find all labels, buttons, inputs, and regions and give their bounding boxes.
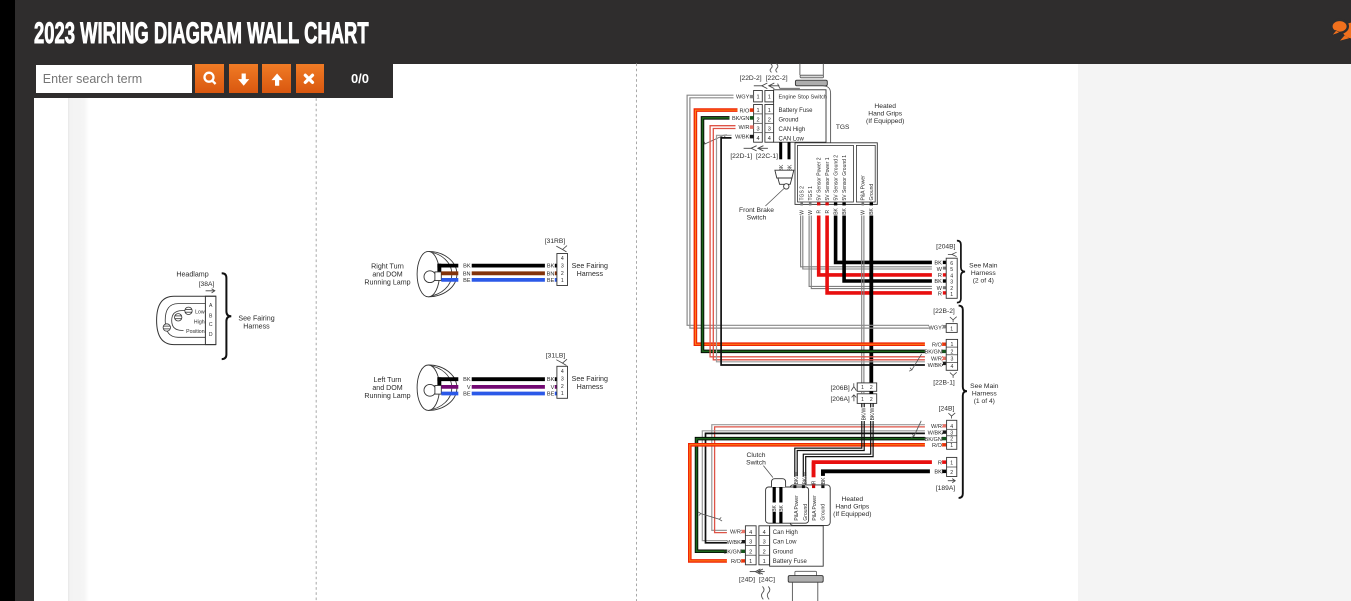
TGS wire letter labels	[799, 207, 875, 214]
wire BK stub (right lamp)	[437, 264, 441, 273]
wire BK left lamp	[437, 377, 557, 381]
wire label WGY at 22B-2	[929, 324, 942, 330]
right lamp body	[428, 251, 457, 296]
svg-text:C: C	[209, 322, 213, 328]
wire BK right lamp	[437, 264, 557, 268]
svg-text:Can Low: Can Low	[773, 540, 797, 546]
search toolbar	[15, 64, 393, 99]
svg-text:(2 of 4): (2 of 4)	[973, 278, 994, 285]
grip flange small	[800, 75, 823, 78]
svg-text:Headlamp: Headlamp	[176, 270, 208, 278]
svg-text:W/BK: W/BK	[735, 135, 750, 141]
wire BE left lamp	[441, 392, 557, 396]
svg-text:BK/W: BK/W	[794, 471, 800, 484]
wire BK brake 2	[788, 142, 791, 170]
svg-text:TGS: TGS	[836, 124, 850, 131]
R / BK labels above grips box	[811, 477, 816, 484]
left lamp socket	[435, 386, 441, 395]
wire W/R bus (bottom)	[712, 425, 943, 531]
svg-text:1: 1	[561, 391, 564, 397]
wire BK P&A ground down to 206B	[869, 216, 873, 383]
svg-text:[31RB]: [31RB]	[545, 238, 566, 245]
wire R/O bus (bottom)	[690, 445, 943, 561]
wire BK sensor ground1 to 204B pin3	[844, 216, 943, 282]
grip bottom body	[792, 582, 817, 601]
svg-text:Switch: Switch	[747, 215, 767, 222]
svg-text:BE: BE	[547, 392, 555, 398]
svg-text:R: R	[816, 210, 822, 214]
svg-text:Ground: Ground	[869, 184, 875, 201]
svg-text:[22B-2]: [22B-2]	[933, 308, 955, 315]
wire labels right (left lamp)	[545, 375, 555, 397]
svg-text:BK: BK	[934, 470, 942, 476]
svg-text:BK: BK	[869, 207, 875, 214]
wire labels right (right lamp)	[545, 262, 555, 284]
wire W/BK bus (bottom)	[702, 431, 943, 541]
svg-text:See Fairing: See Fairing	[572, 262, 608, 270]
wire labels left (left lamp)	[458, 375, 471, 397]
svg-text:W: W	[937, 267, 943, 273]
svg-text:BN: BN	[463, 271, 471, 277]
svg-text:3: 3	[950, 357, 953, 363]
svg-text:1: 1	[950, 461, 953, 467]
wire BK vertical to grips	[821, 471, 825, 488]
svg-text:Harness: Harness	[972, 390, 998, 397]
svg-text:BE: BE	[463, 392, 471, 398]
headlamp housing outline	[157, 296, 216, 344]
svg-text:2: 2	[756, 117, 759, 123]
svg-text:R: R	[938, 460, 942, 466]
wire BK to 189A	[823, 471, 943, 488]
svg-text:W/BK: W/BK	[727, 540, 742, 546]
svg-text:R: R	[825, 210, 831, 214]
svg-text:3: 3	[950, 280, 953, 286]
svg-text:3: 3	[756, 127, 759, 133]
svg-text:BK/W: BK/W	[803, 471, 809, 484]
svg-text:2: 2	[950, 349, 953, 355]
svg-text:R/O: R/O	[932, 343, 943, 349]
svg-text:Position: Position	[186, 329, 205, 335]
svg-text:Ground: Ground	[803, 504, 809, 521]
wire BK sensor ground2 to 204B pin6	[836, 216, 943, 263]
svg-text:W/R: W/R	[730, 530, 741, 536]
wire R sensor power1 to 204B pin1	[827, 216, 943, 293]
svg-text:[204B]: [204B]	[936, 243, 955, 250]
headlamp connector 38A pins	[205, 296, 216, 344]
svg-text:BE: BE	[547, 278, 555, 284]
svg-text:R/O: R/O	[731, 559, 742, 565]
svg-text:R/O: R/O	[932, 443, 943, 449]
wire label BK/GN	[730, 115, 750, 121]
svg-text:BK: BK	[779, 504, 785, 511]
wire labels at 22B-1	[925, 341, 942, 367]
svg-text:Harness: Harness	[577, 383, 604, 391]
fold highlight band	[68, 63, 89, 601]
svg-text:[22D-1]: [22D-1]	[730, 153, 752, 160]
fold dashed line 2	[636, 64, 638, 601]
wire from grip right to TGS	[824, 86, 831, 143]
svg-text:and DOM: and DOM	[372, 271, 402, 279]
svg-text:1: 1	[768, 108, 771, 114]
P&A pin marks clutch side	[793, 485, 796, 488]
svg-text:R: R	[938, 291, 942, 297]
arrow 189A	[948, 479, 955, 483]
svg-text:[206A]: [206A]	[830, 396, 849, 403]
clutch switch box	[766, 487, 809, 523]
svg-text:(If Equipped): (If Equipped)	[866, 118, 904, 125]
svg-text:1: 1	[950, 292, 953, 298]
svg-text:1: 1	[950, 342, 953, 348]
wire break squiggle top	[770, 64, 772, 73]
svg-text:BK/W: BK/W	[861, 407, 867, 420]
svg-text:R: R	[812, 480, 818, 484]
svg-text:4: 4	[768, 136, 771, 142]
wire W TGS2 to 204B pin5	[801, 216, 943, 267]
svg-text:3: 3	[950, 430, 953, 436]
pin stubs 189A	[943, 460, 946, 464]
throttle grip cylinder top	[800, 64, 823, 76]
svg-text:1: 1	[763, 559, 766, 565]
svg-text:Engine Stop Switch: Engine Stop Switch	[779, 95, 828, 101]
svg-text:[24B]: [24B]	[939, 405, 955, 412]
connector 22C-1 pin box	[765, 105, 774, 143]
svg-text:(1 of 4): (1 of 4)	[974, 398, 995, 405]
svg-text:BN: BN	[547, 271, 555, 277]
svg-text:2: 2	[950, 437, 953, 443]
svg-text:P&A Power: P&A Power	[794, 495, 800, 521]
wire W/R bus (top)	[710, 126, 943, 357]
svg-text:Running Lamp: Running Lamp	[364, 392, 410, 400]
svg-text:Switch: Switch	[746, 459, 766, 466]
TGS sensor box	[798, 145, 854, 202]
wire BN right lamp	[441, 271, 557, 275]
wire W/BK bus (top)	[717, 135, 943, 361]
svg-text:BK: BK	[463, 264, 471, 270]
svg-text:Ground: Ground	[773, 549, 793, 555]
svg-text:BK: BK	[934, 279, 942, 285]
svg-text:5V Sensor Ground 1: 5V Sensor Ground 1	[842, 155, 848, 201]
left lamp bulb	[424, 384, 436, 396]
TGS pin stubs	[800, 202, 803, 205]
svg-text:5: 5	[950, 267, 953, 273]
svg-text:3: 3	[768, 127, 771, 133]
svg-text:CAN High: CAN High	[779, 127, 806, 133]
svg-text:W: W	[799, 210, 805, 215]
wire BK/W pair 1 (206A to clutch P&A power)	[795, 403, 862, 487]
bulb position	[163, 324, 170, 331]
svg-text:[206B]: [206B]	[830, 385, 849, 392]
svg-text:2: 2	[561, 271, 564, 277]
wire BK clutch 2	[779, 487, 782, 523]
svg-text:Harness: Harness	[243, 322, 270, 330]
big brace see main harness 1of4	[959, 306, 967, 498]
svg-text:WGY: WGY	[929, 325, 943, 331]
svg-text:Heated: Heated	[842, 496, 864, 503]
front brake switch leader	[765, 189, 784, 207]
svg-text:BK: BK	[547, 377, 555, 383]
svg-text:Left Turn: Left Turn	[374, 376, 402, 384]
svg-text:TGS 1: TGS 1	[808, 186, 814, 201]
heated grips connector box	[790, 485, 830, 526]
connector [206B]	[857, 383, 877, 391]
connector [31LB]	[557, 366, 568, 398]
svg-text:2: 2	[870, 385, 873, 391]
svg-text:[22D-2]: [22D-2]	[740, 75, 762, 82]
page white area	[34, 63, 1078, 601]
svg-text:1: 1	[756, 108, 759, 114]
connector 24C pin box	[759, 526, 770, 565]
svg-text:A: A	[209, 303, 213, 309]
wire labels at 204B	[932, 259, 943, 296]
connector [204B]	[946, 258, 957, 298]
svg-text:1: 1	[756, 94, 759, 100]
wire labels at 24B	[925, 422, 942, 447]
svg-text:1: 1	[950, 326, 953, 332]
grip bottom gray cap	[788, 576, 823, 583]
svg-text:5V Sensor Power 2: 5V Sensor Power 2	[816, 157, 822, 200]
TGS P&A box	[856, 145, 875, 202]
svg-text:BK: BK	[772, 504, 778, 511]
svg-text:4: 4	[756, 136, 759, 142]
svg-text:and DOM: and DOM	[372, 384, 402, 392]
svg-text:[24D]: [24D]	[739, 577, 755, 584]
svg-text:2: 2	[749, 549, 752, 555]
svg-text:D: D	[209, 332, 213, 338]
wire BK clutch 1	[773, 487, 776, 523]
svg-text:4: 4	[950, 364, 953, 370]
pin stubs top	[750, 95, 754, 98]
svg-text:4: 4	[561, 369, 564, 375]
twist mark top	[702, 135, 727, 144]
wire BK/W pair 2 (206A to clutch ground)	[803, 403, 870, 487]
svg-text:4: 4	[561, 256, 564, 262]
wire labels at 189A	[932, 459, 942, 465]
pin stubs 22B-1	[943, 343, 946, 346]
svg-text:Heated: Heated	[874, 103, 896, 110]
svg-text:(If Equipped): (If Equipped)	[833, 511, 871, 518]
pin stubs 24D	[742, 530, 745, 533]
svg-text:P&A Power: P&A Power	[861, 175, 867, 201]
arrow to 38A	[206, 289, 215, 293]
svg-text:High: High	[194, 319, 205, 325]
svg-text:V: V	[551, 385, 555, 391]
svg-text:Harness: Harness	[577, 270, 604, 278]
wire V left lamp	[441, 385, 557, 389]
connector [22B-2]	[946, 324, 957, 333]
brace 204B	[957, 241, 965, 303]
svg-text:BK: BK	[842, 207, 848, 214]
svg-text:BK: BK	[833, 207, 839, 214]
svg-text:BK/W: BK/W	[870, 407, 876, 420]
grip bottom flange	[795, 571, 817, 576]
svg-text:1: 1	[561, 278, 564, 284]
svg-text:Harness: Harness	[971, 270, 997, 277]
svg-text:6: 6	[950, 261, 953, 267]
svg-text:3: 3	[561, 264, 564, 270]
svg-text:5V Sensor Ground 2: 5V Sensor Ground 2	[833, 155, 839, 201]
clutch switch leader	[763, 466, 773, 478]
svg-text:WGY: WGY	[736, 95, 750, 101]
bulb high	[175, 314, 182, 321]
wire from grip left	[778, 84, 800, 89]
24 function box	[770, 526, 824, 566]
svg-text:4: 4	[950, 424, 953, 430]
wire BK/GN bus (bottom)	[697, 439, 943, 552]
bulb low	[185, 307, 192, 314]
svg-text:[38A]: [38A]	[199, 281, 215, 288]
svg-text:3: 3	[749, 540, 752, 546]
pin stubs 24B	[943, 424, 946, 427]
brace headlamp	[222, 273, 232, 359]
svg-text:3: 3	[763, 540, 766, 546]
svg-text:Ground: Ground	[779, 118, 799, 124]
bulb labels	[193, 309, 206, 314]
svg-text:R: R	[938, 273, 942, 279]
headlamp inner shell	[165, 304, 205, 338]
BK/W labels below 206A	[860, 407, 867, 421]
arrows 22D-1/22C-1	[744, 146, 768, 151]
svg-text:W/R: W/R	[739, 125, 750, 131]
wire R sensor power2 to 204B pin4	[819, 216, 943, 275]
twist mark 24B	[911, 421, 921, 438]
connector [206A]	[857, 394, 877, 404]
wire label R/O	[738, 107, 750, 113]
wire label WGY	[734, 93, 750, 99]
svg-text:4: 4	[749, 530, 752, 536]
wire BK/GN bus (top)	[703, 118, 943, 352]
svg-text:BK: BK	[821, 477, 827, 484]
headlamp inner curve	[172, 311, 206, 331]
right lamp bulb	[424, 271, 436, 283]
search input	[36, 65, 193, 93]
wire W P&A power down to 206B	[861, 216, 863, 383]
svg-text:TGS 2: TGS 2	[799, 186, 805, 201]
svg-text:BK/GN: BK/GN	[732, 116, 749, 122]
svg-text:Battery Fuse: Battery Fuse	[779, 108, 814, 114]
BK labels clutch	[772, 503, 777, 513]
svg-text:Running Lamp: Running Lamp	[364, 279, 410, 287]
svg-text:2: 2	[768, 117, 771, 123]
TGS column labels	[799, 155, 875, 201]
chat icon	[1322, 10, 1351, 46]
connector [22B-1]	[946, 339, 957, 370]
svg-text:4: 4	[763, 530, 766, 536]
wire break squiggle bottom	[762, 586, 765, 599]
svg-text:BK/GN: BK/GN	[723, 550, 740, 556]
svg-text:CAN Low: CAN Low	[779, 136, 805, 142]
front brake switch symbol	[775, 170, 794, 178]
svg-text:W/BK: W/BK	[928, 363, 943, 369]
svg-text:B: B	[209, 313, 213, 319]
right lamp socket	[435, 272, 441, 281]
twist mark bottom bus	[698, 512, 722, 521]
svg-text:P&A Power: P&A Power	[812, 495, 818, 521]
svg-text:W: W	[861, 210, 867, 215]
clutch switch dome	[772, 479, 786, 487]
svg-text:1: 1	[768, 94, 771, 100]
svg-text:3: 3	[561, 377, 564, 383]
svg-text:See Main: See Main	[969, 263, 998, 270]
svg-text:[24C]: [24C]	[759, 577, 775, 584]
svg-text:BK: BK	[463, 377, 471, 383]
wire label W/R	[736, 124, 750, 130]
svg-text:Battery Fuse: Battery Fuse	[773, 559, 808, 565]
connector [189A]	[947, 457, 957, 476]
svg-text:2: 2	[561, 384, 564, 390]
wire R to 189A	[814, 462, 943, 488]
connector 24D pin box	[745, 526, 756, 565]
connector 22D-1 pin box	[754, 105, 763, 143]
svg-text:Right Turn: Right Turn	[371, 263, 404, 271]
svg-text:W/R: W/R	[931, 424, 942, 430]
wire BK stub (left lamp)	[437, 377, 441, 386]
wire W TGS1 to 204B pin2	[809, 216, 943, 287]
svg-text:W: W	[808, 210, 814, 215]
wire R vertical to grips	[812, 462, 816, 488]
wire WGY bus (top)	[687, 95, 943, 325]
svg-text:[189A]: [189A]	[936, 485, 955, 492]
dark gray column	[15, 0, 34, 601]
connector 22D-2 pin box	[754, 91, 763, 102]
svg-text:4: 4	[950, 273, 953, 279]
svg-text:1: 1	[950, 443, 953, 449]
svg-text:See Main: See Main	[970, 383, 999, 390]
svg-text:BK: BK	[934, 261, 942, 267]
search buttons	[195, 64, 224, 94]
svg-text:Hand Grips: Hand Grips	[868, 111, 902, 118]
BK labels brake	[778, 159, 783, 172]
connector 22C-2 pin box	[765, 91, 774, 102]
svg-text:See Fairing: See Fairing	[572, 375, 608, 383]
svg-text:[22C-2]: [22C-2]	[766, 75, 788, 82]
svg-text:[22B-1]: [22B-1]	[933, 380, 955, 387]
title	[34, 17, 369, 51]
svg-text:1: 1	[749, 559, 752, 565]
svg-text:5V Sensor Power 1: 5V Sensor Power 1	[825, 157, 831, 200]
arrows 22D-2/22C-2	[754, 83, 780, 89]
svg-text:2: 2	[870, 397, 873, 403]
svg-text:Front Brake: Front Brake	[739, 207, 774, 214]
svg-text:W/BK: W/BK	[928, 431, 943, 437]
svg-text:W/R: W/R	[931, 357, 942, 363]
svg-text:2: 2	[763, 549, 766, 555]
svg-text:Can High: Can High	[773, 530, 798, 536]
wire R/O bus (top)	[695, 110, 942, 344]
svg-text:BK/GN: BK/GN	[924, 437, 941, 443]
svg-text:BK/GN: BK/GN	[924, 350, 941, 356]
connector [24B]	[947, 420, 957, 449]
BK/W labels above clutch box	[793, 476, 806, 485]
left lamp body	[428, 365, 457, 410]
svg-text:V: V	[467, 385, 471, 391]
0/0 counter	[346, 71, 374, 86]
wire labels at 24D	[727, 528, 741, 566]
svg-text:Clutch: Clutch	[747, 452, 766, 459]
arrows 24D/24C	[750, 569, 765, 574]
wire labels left (right lamp)	[458, 262, 471, 284]
svg-text:2: 2	[950, 470, 953, 476]
connector [31RB]	[557, 254, 568, 286]
wire BK brake 1	[779, 142, 782, 170]
svg-text:Ground: Ground	[820, 504, 826, 521]
engine stop switch box	[774, 90, 826, 142]
svg-text:[22C-1]: [22C-1]	[756, 153, 778, 160]
grip flange big	[795, 80, 827, 86]
pin stubs 204B	[943, 261, 946, 264]
arrow below 22B-1	[950, 372, 957, 378]
header bar	[15, 0, 1351, 64]
TGS outer box	[795, 143, 877, 205]
